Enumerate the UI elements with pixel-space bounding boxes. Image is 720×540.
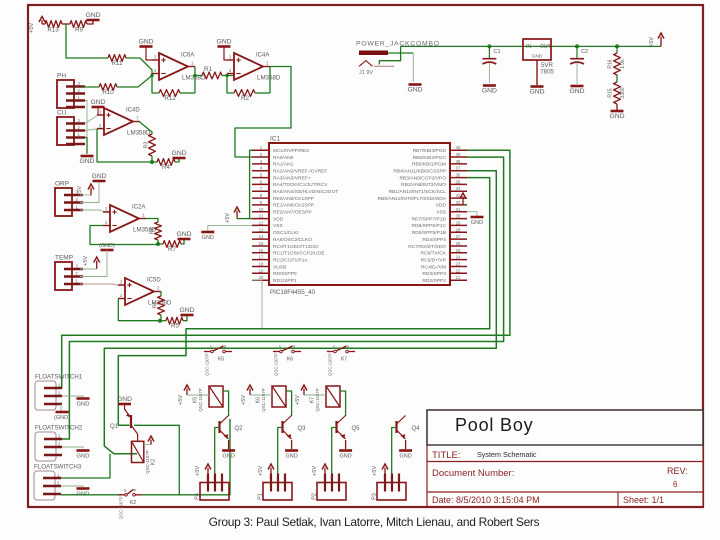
svg-text:R2: R2 [241,95,249,102]
svg-text:26: 26 [456,241,461,246]
svg-text:21: 21 [456,275,461,280]
connector TEMP [55,262,72,290]
svg-text:25: 25 [456,248,461,253]
ground GND below Q2 [222,449,235,452]
svg-text:ORP: ORP [55,181,69,188]
svg-text:+5V: +5V [241,395,247,405]
resistor R3 [149,134,156,156]
resistor R16 [616,46,618,53]
svg-text:IC2A: IC2A [132,205,145,211]
svg-text:VUSB: VUSB [273,264,286,270]
svg-text:PIC18F4455_40: PIC18F4455_40 [270,289,316,296]
wire CU pin2 to IC4D inverting input [85,129,104,131]
svg-text:22: 22 [456,268,461,273]
svg-text:GND: GND [85,12,100,19]
svg-text:37: 37 [456,166,461,171]
wire IC4A feedback loop [269,67,271,94]
wire R12 loop to inverting input [180,92,195,94]
IC1 pin 38 RB5/KBI1/PGM [450,163,467,165]
wire PH pin1 down to ground [85,101,87,153]
svg-text:13: 13 [259,227,264,232]
wire R5 to ground [183,316,187,321]
wire R8 to node [157,240,159,244]
ground GND at FLOATSWITCH1 [77,397,90,400]
IC1 pin 40 RB7/KBI3/PGD [450,149,467,151]
svg-text:RD4/SPP4: RD4/SPP4 [422,237,446,243]
svg-text:TEMP: TEMP [55,255,73,262]
svg-text:R4: R4 [162,164,170,171]
svg-text:17: 17 [259,255,264,260]
svg-text:RC2/CCP1/P1A: RC2/CCP1/P1A [273,257,309,263]
+5V arrow at ORP [90,188,92,196]
connector ORP [55,188,72,216]
ground GND below FLOATSWITCH1 [56,411,69,414]
resistor R12 feedback [159,90,180,97]
connector P3 [377,483,406,501]
svg-text:K2: K2 [151,459,157,465]
svg-text:RE0/AN5/CK1SPP: RE0/AN5/CK1SPP [273,196,314,202]
wire R11 to IC6A inverting input [126,58,152,76]
wire jack tip to ground [388,52,413,54]
ground GND right of R5 [181,314,194,317]
IC1 pin 18 VUSB [252,266,269,268]
wire from R13-R9 node to R11 [66,24,108,58]
svg-text:Q5: Q5 [352,426,361,432]
wire FLOATSWITCH3 pin2 to ground [61,486,83,487]
IC1 pin 21 RD2/SPP2 [450,279,467,281]
svg-text:Q2: Q2 [235,426,244,432]
svg-text:2: 2 [276,476,278,480]
svg-text:P2: P2 [312,493,318,500]
svg-text:S: S [124,488,127,493]
wire coil K7 to Q5 collector [340,391,346,416]
svg-text:VDD: VDD [436,203,447,209]
svg-text:K6: K6 [287,357,293,363]
svg-text:RD5/SPP5/P1B: RD5/SPP5/P1B [412,230,446,236]
wire FLOATSWITCH3 pin3 long run [61,494,122,496]
svg-text:GND: GND [339,454,351,460]
svg-text:REV:: REV: [667,466,688,476]
svg-text:RB0/AN12/INT0/FLT0/SDI/SDA: RB0/AN12/INT0/FLT0/SDI/SDA [378,196,447,202]
wire IC4A output to IC1 pin2 RA0 [235,67,291,158]
+5V arrow at connector P4 [207,468,209,483]
IC1 pin 39 RB6/KBI2/PGC [450,156,467,158]
svg-text:RC7/RX/DT/SDO: RC7/RX/DT/SDO [408,244,446,250]
svg-text:K7: K7 [341,357,347,363]
svg-text:+5V: +5V [225,213,231,223]
svg-text:OUT: OUT [540,44,551,50]
svg-text:6: 6 [673,480,678,489]
svg-text:LM358D: LM358D [257,75,281,82]
wire TEMP pin3 to +5V [80,268,97,270]
IC1 pin 27 RD4/SPP4 [450,238,467,240]
+5V arrow at IC1 pin32 VDD [463,204,467,206]
svg-text:RA1/AN1: RA1/AN1 [273,162,294,168]
wire jack sleeve to rail [379,46,400,64]
svg-text:1: 1 [283,476,285,480]
svg-text:P: P [224,345,227,350]
transistor Q2 [218,421,220,433]
transistor Q1 [130,415,132,428]
svg-text:GND: GND [222,454,234,460]
wire IC4D feedback to inverting input [97,129,152,162]
IC1 pin 14 RA6/OSC2/CLKO [252,238,269,240]
svg-text:QSC-1107P: QSC-1107P [274,353,279,376]
svg-text:MCLR/VPP/RE3: MCLR/VPP/RE3 [273,148,309,154]
ground GND below CU [86,152,88,154]
wire Q1 collector region to right rail [134,425,179,495]
svg-text:(GND): (GND) [99,243,115,249]
svg-text:+5V: +5V [258,466,264,476]
+5V arrow at coil K5 [186,389,188,396]
wire FLOATSWITCH1 pin3 to ground [60,404,62,411]
svg-text:P3: P3 [372,493,378,500]
op-amp IC4A [234,53,263,80]
svg-text:RA0/AN0: RA0/AN0 [273,155,294,161]
wire PH pin3 to R10 [82,86,99,88]
IC1 pin 37 RB4/AN11/KBI0/CSSPP [450,170,467,172]
op-amp IC4D [104,108,133,135]
op-amp IC6A [159,53,188,80]
svg-text:IN: IN [526,44,531,50]
svg-text:23: 23 [456,262,461,267]
wire regulator ground [536,60,538,85]
svg-text:GND: GND [482,88,497,95]
+5V arrow right end of rail [660,37,662,47]
svg-text:27: 27 [456,234,461,239]
resistor R15 [614,82,621,104]
svg-text:GND: GND [138,39,153,46]
junction R16 [615,44,619,48]
IC1 pin 10 RE2/AN7/OESPP [252,211,269,213]
wire Q2 base to connector P4 [215,428,220,483]
svg-text:System Schematic: System Schematic [477,450,537,459]
svg-text:3300: 3300 [620,87,626,98]
svg-text:34: 34 [456,186,461,191]
svg-text:QSC-1107P: QSC-1107P [198,388,203,411]
svg-text:40: 40 [456,145,461,150]
svg-text:RD2/SPP2: RD2/SPP2 [422,278,446,284]
svg-text:P4: P4 [195,493,201,500]
wire IC1 pin20 to bus [252,280,262,329]
svg-text:K2: K2 [130,500,136,506]
svg-text:GND: GND [609,113,624,120]
svg-text:QSC-1107P: QSC-1107P [205,353,210,376]
wire R6 to node [160,315,162,321]
svg-text:R10: R10 [102,89,114,96]
node junction at IC4A inverting input [225,74,228,77]
ground GND below Q3 [285,449,298,452]
svg-text:GND: GND [202,235,214,241]
IC1 pin 9 RE1/AN6/CK2SPP [252,204,269,206]
connector PH [57,80,74,108]
resistor R6 [158,296,165,315]
wire R1 to IC4A inverting input [222,75,234,77]
svg-text:R1: R1 [204,66,212,73]
svg-text:GND: GND [117,396,132,403]
svg-text:+5V: +5V [29,23,35,33]
IC1 pin 34 RB1/AN10/INT1/SCK/SCL [450,190,467,192]
svg-text:R6: R6 [153,302,159,309]
caption group credits [14,515,720,529]
svg-text:18: 18 [259,262,264,267]
IC1 pin 13 OSC1/CLKI [252,231,269,233]
svg-text:OSC1/CLKI: OSC1/CLKI [273,230,299,236]
IC1 pin 23 RC4/D-/VM [450,266,467,268]
svg-text:RB7/KBI3/PGD: RB7/KBI3/PGD [413,148,447,154]
svg-text:QSC-1107P: QSC-1107P [328,353,333,376]
wire MCLR pin1 tied to VDD pin11 [250,150,252,218]
ground GND above Q1 [118,403,131,406]
svg-text:RB6/KBI2/PGC: RB6/KBI2/PGC [413,155,447,161]
svg-text:35: 35 [456,179,461,184]
svg-text:R8: R8 [150,228,156,235]
wire FLOATSWITCH3 pin1 from bus [61,454,110,478]
svg-text:FLOATSWITCH1: FLOATSWITCH1 [35,374,83,381]
svg-text:GND: GND [407,87,422,94]
svg-text:14: 14 [259,234,264,239]
title block Document Number row [427,491,703,493]
ground GND below C2 [571,85,584,88]
svg-text:RB5/KBI1/PGM: RB5/KBI1/PGM [412,162,446,168]
IC1 pin 3 RA1/AN1 [252,163,269,165]
ground GND at FLOATSWITCH3 [77,487,90,490]
svg-text:IC6A: IC6A [181,53,194,59]
svg-text:GND: GND [569,88,584,95]
wire FLOATSWITCH2 pin2 to ground [62,447,83,449]
title block TITLE row [427,461,703,463]
svg-text:R15: R15 [608,88,614,97]
microcontroller IC1 PIC18F4455 [269,143,450,285]
resistor R11 [108,55,126,62]
svg-text:P: P [347,345,350,350]
wire R15 to ground [616,104,618,110]
svg-text:30: 30 [456,214,461,219]
relay contact K2 [125,494,128,497]
svg-text:+5V: +5V [195,466,201,476]
resistor R2 feedback [234,90,255,97]
wire IC5D feedback [118,299,160,320]
title block Pool Boy box [427,410,703,445]
svg-text:RB3/AN9/CCP2/VPO: RB3/AN9/CCP2/VPO [400,175,447,181]
resistor R4 [157,159,175,166]
svg-text:20: 20 [259,275,264,280]
svg-text:Pool Boy: Pool Boy [455,415,533,435]
resistor R10 [99,84,117,91]
svg-text:RB4/AN11/KBI0/CSSPP: RB4/AN11/KBI0/CSSPP [393,169,446,175]
IC1 pin 11 VDD [252,218,269,220]
ground GND below regulator [531,85,544,88]
svg-text:S: S [279,345,282,350]
IC1 pin 16 RC1/T1OSI/CCP2/UOE [252,252,269,254]
svg-text:GND: GND [77,402,90,408]
wire Q4 emitter to ground [405,440,407,449]
svg-text:11: 11 [259,214,264,219]
svg-text:+5V: +5V [77,186,83,196]
resistor R1 [195,75,202,77]
IC1 pin 2 RA0/AN0 [252,156,269,158]
svg-text:19: 19 [259,268,264,273]
wire TEMP pin2 to ground [80,250,107,277]
svg-text:R5: R5 [171,323,179,330]
IC1 pin 24 RC5/D+/VP [450,259,467,261]
op-amp IC2A [110,205,139,232]
svg-text:15: 15 [259,241,264,246]
svg-text:12: 12 [259,220,264,225]
wire gnd to Q1 collector [124,404,126,410]
IC1 pin 31 VSS [450,211,467,213]
wire IC5D output to R6 [160,292,162,297]
svg-text:QSC-1107P: QSC-1107P [315,388,320,411]
connector CU [57,117,74,145]
+5V arrow at TEMP [96,261,98,270]
transistor Q5 [335,421,337,433]
svg-text:2: 2 [330,476,332,480]
svg-text:Q4: Q4 [412,426,421,432]
wire Q3 emitter to ground [291,440,293,449]
+5V arrow at coil K6 [249,389,251,396]
wire [87,21,93,25]
svg-text:J1 9V: J1 9V [359,70,373,76]
svg-text:39: 39 [456,152,461,157]
IC1 pin 1 MCLR/VPP/RE3 [252,149,269,151]
svg-text:IC4A: IC4A [256,53,269,59]
IC1 pin 25 RC6/TX/CK [450,252,467,254]
svg-text:+5V: +5V [83,256,89,266]
IC1 pin 6 RA4/T0CKI/C1OUT/RCV [252,183,269,185]
node junction at R1 left [193,74,196,77]
IC1 pin 35 RB2/AN8/INT2/VMO [450,183,467,185]
relay coil K2 QSC-1107P [132,441,144,462]
svg-text:GND: GND [179,307,194,314]
svg-text:GND: GND [176,231,191,238]
svg-text:C2: C2 [581,49,588,55]
svg-text:R9: R9 [75,27,83,34]
wire Q5 base to connector P2 [332,428,337,483]
IC1 pin 33 RB0/AN12/INT0/FLT0/SDI/SDA [450,197,467,199]
svg-text:GND: GND [285,454,297,460]
svg-text:P1: P1 [258,493,264,500]
svg-text:FLOATSWITCH3: FLOATSWITCH3 [34,464,82,471]
IC1 pin 7 RA5/AN4/SS/HLVDIN/C2OUT [252,190,269,192]
ground GND above IC4A [218,45,231,48]
connector P2 [317,483,346,501]
svg-text:RE2/AN7/OESPP: RE2/AN7/OESPP [273,210,312,216]
svg-text:FLOATSWITCH2: FLOATSWITCH2 [35,425,83,432]
ground GND top-left [87,19,100,22]
svg-text:R13: R13 [47,27,59,34]
svg-text:RB1/AN10/INT1/SCK/SCL: RB1/AN10/INT1/SCK/SCL [389,189,447,195]
relay coil K7 QSC-1107P [326,386,340,407]
+5V arrow at coil K7 [303,389,305,396]
wire Q3 base to connector P1 [278,428,283,483]
wire ORP pin3 to +5V [80,194,91,196]
resistor R13 [45,21,62,28]
wire coil K5 to Q2 collector [223,391,229,416]
wire gnd to IC4A non-inverting input [224,47,227,61]
wire ORP pin1 to IC2A non-inverting input [80,210,110,212]
svg-text:GND: GND [399,454,411,460]
svg-text:RA3/AN3/VREF+: RA3/AN3/VREF+ [273,175,311,181]
wire TEMP pin1 to IC5D non-inverting input [80,284,125,285]
node junction at IC6A inverting input [150,74,153,77]
svg-text:QSC-1107P: QSC-1107P [261,388,266,411]
transistor Q4 [395,421,397,433]
+5V power rail [401,45,661,47]
svg-text:29: 29 [456,220,461,225]
svg-text:P: P [293,345,296,350]
ground GND above IC4D [92,106,105,109]
voltage regulator SVR 7805 [523,39,551,60]
node junction [156,242,160,246]
svg-text:RD1/SPP1: RD1/SPP1 [273,278,297,284]
ground GND at FLOATSWITCH2 [77,449,90,452]
+5V supply arrow top-left [41,20,43,24]
svg-text:GND: GND [79,158,94,165]
svg-text:S: S [210,345,213,350]
svg-text:IC5D: IC5D [147,278,161,284]
svg-text:RE1/AN6/CK2SPP: RE1/AN6/CK2SPP [273,203,314,209]
title block outline [427,410,703,507]
IC1 pin 8 RE0/AN5/CK1SPP [252,197,269,199]
svg-text:(GND): (GND) [54,415,70,421]
junction C1 [487,44,491,48]
svg-text:+5V: +5V [295,395,301,405]
resistor R9 [70,21,87,28]
svg-text:VSS: VSS [436,210,447,216]
connector FLOATSWITCH1 [35,381,56,410]
ground GND right of R7 [178,238,191,241]
transistor Q3 [281,421,283,433]
svg-text:RB2/AN8/INT2/VMO: RB2/AN8/INT2/VMO [401,182,446,188]
svg-text:VSS: VSS [273,223,284,229]
node junction [150,160,154,164]
wire IC1 pin12 VSS to ground [208,225,252,231]
resistor R7 [158,243,163,245]
wire bus pin37 RB4 to FLOATSWITCH3 region [104,171,496,454]
wire CU pin3 to IC4D non-inverting input [85,115,104,124]
svg-text:TITLE:: TITLE: [432,450,461,461]
svg-text:32: 32 [456,200,461,205]
ground GND at IC1 pin31 [471,216,484,219]
svg-text:K5: K5 [218,357,224,363]
connector P4 [200,483,229,501]
svg-text:RD6/SPP6/P1C: RD6/SPP6/P1C [411,223,446,229]
svg-text:CU: CU [57,110,67,117]
wire CU pin1 to ground [85,138,87,153]
svg-text:P: P [134,488,137,493]
svg-text:Q1: Q1 [110,424,119,430]
ground GND at IC1 pin12 [201,231,214,234]
ground GND above ORP area [93,180,106,183]
wire R16 to R15 [616,75,618,82]
svg-text:GND: GND [171,150,186,157]
ground GND below jack [409,83,422,86]
wire R10 to IC6A node [117,76,152,88]
wire Q4 base to connector P3 [392,428,397,483]
wire R3 to node [151,156,153,162]
svg-text:RA4/T0CKI/C1OUT/RCV: RA4/T0CKI/C1OUT/RCV [273,182,328,188]
connector P1 [263,483,292,501]
op-amp IC5D [125,278,154,305]
svg-text:GND: GND [532,54,543,59]
wire IC4D output to R3 [139,122,152,135]
wire [62,23,70,25]
IC1 pin 32 VDD [450,204,467,206]
relay contact switch K6 [280,350,283,353]
svg-text:RC5/D+/VP: RC5/D+/VP [421,257,446,263]
svg-text:RA6/OSC2/CLKO: RA6/OSC2/CLKO [273,237,312,243]
